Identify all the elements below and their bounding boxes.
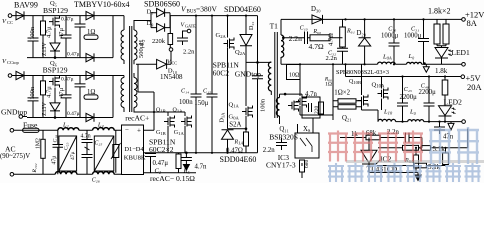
svg-text:4.7n: 4.7n bbox=[305, 91, 317, 98]
svg-text:GNDtop: GNDtop bbox=[1, 108, 27, 117]
svg-text:G1A: G1A bbox=[174, 130, 185, 136]
svg-text:GNDtop: GNDtop bbox=[235, 70, 261, 79]
svg-text:60C2×2: 60C2×2 bbox=[149, 145, 174, 154]
svg-text:(90~275)V: (90~275)V bbox=[0, 153, 30, 160]
svg-text:L₁: L₁ bbox=[62, 122, 69, 129]
svg-text:2.2n: 2.2n bbox=[289, 34, 302, 43]
svg-text:SDD04E60: SDD04E60 bbox=[224, 5, 261, 14]
svg-text:L₄: L₄ bbox=[97, 122, 105, 129]
svg-text:Z13V: Z13V bbox=[42, 42, 48, 56]
svg-text:L₀: L₀ bbox=[409, 109, 416, 116]
svg-text:Q₂₁: Q₂₁ bbox=[342, 115, 352, 122]
svg-text:L₀: L₀ bbox=[408, 53, 415, 60]
svg-text:D₂₀: D₂₀ bbox=[357, 30, 367, 37]
svg-text:1000μ: 1000μ bbox=[404, 33, 422, 40]
svg-text:R1A: R1A bbox=[234, 140, 244, 146]
svg-text:1Ω: 1Ω bbox=[87, 89, 95, 96]
svg-text:Q2A: Q2A bbox=[235, 49, 246, 56]
svg-text:BAV99: BAV99 bbox=[14, 1, 38, 10]
svg-text:C₂₅: C₂₅ bbox=[95, 141, 103, 147]
svg-text:2.2n: 2.2n bbox=[326, 55, 338, 62]
svg-text:R₆₁: R₆₁ bbox=[346, 29, 355, 35]
svg-text:D1−D4: D1−D4 bbox=[124, 146, 144, 153]
svg-text:CC: CC bbox=[172, 61, 178, 66]
svg-text:CNY17-3: CNY17-3 bbox=[266, 161, 296, 170]
svg-text:C₁₅: C₁₅ bbox=[203, 89, 211, 95]
svg-text:100n: 100n bbox=[29, 26, 36, 40]
svg-text:KBU8K: KBU8K bbox=[124, 155, 146, 162]
svg-text:47μ: 47μ bbox=[70, 152, 76, 161]
svg-text:D1A: D1A bbox=[220, 112, 226, 123]
svg-text:D₃₀: D₃₀ bbox=[311, 6, 321, 13]
svg-text:C₂₃: C₂₃ bbox=[64, 142, 70, 150]
svg-text:60C2: 60C2 bbox=[213, 69, 230, 78]
svg-text:47μ: 47μ bbox=[52, 156, 58, 165]
svg-text:recAC− 0.15Ω: recAC− 0.15Ω bbox=[150, 174, 195, 183]
svg-text:0.47Ω: 0.47Ω bbox=[226, 147, 243, 154]
svg-text:4.7μ: 4.7μ bbox=[46, 26, 53, 38]
svg-text:2200μ: 2200μ bbox=[419, 89, 437, 96]
svg-text:Q10B: Q10B bbox=[349, 79, 361, 85]
svg-text:BSP129: BSP129 bbox=[43, 6, 68, 15]
svg-text:8A: 8A bbox=[467, 18, 478, 28]
svg-text:1Ω: 1Ω bbox=[325, 82, 332, 88]
svg-text:Q1B: Q1B bbox=[156, 108, 166, 114]
svg-text:−: − bbox=[125, 126, 129, 134]
svg-text:47μ: 47μ bbox=[58, 28, 65, 39]
svg-text:150μ: 150μ bbox=[194, 100, 208, 107]
svg-text:C₂: C₂ bbox=[155, 168, 162, 175]
svg-text:R₅: R₅ bbox=[183, 168, 190, 175]
svg-text:4.7Ω: 4.7Ω bbox=[309, 42, 324, 51]
svg-text:0.47μ: 0.47μ bbox=[61, 17, 74, 23]
svg-text:47μ: 47μ bbox=[58, 87, 65, 98]
svg-text:XS: XS bbox=[303, 126, 311, 133]
svg-text:C₁₈: C₁₈ bbox=[53, 135, 59, 143]
svg-text:LED1: LED1 bbox=[451, 48, 470, 57]
svg-text:0.47μ: 0.47μ bbox=[67, 111, 80, 117]
svg-text:2.2n: 2.2n bbox=[263, 147, 275, 154]
svg-text:R₆₀: R₆₀ bbox=[312, 29, 321, 35]
svg-text:LED2: LED2 bbox=[444, 98, 463, 107]
svg-text:220k: 220k bbox=[152, 38, 166, 45]
svg-text:1000μ: 1000μ bbox=[381, 33, 399, 40]
svg-text:680: 680 bbox=[304, 160, 310, 169]
svg-text:0.47μ: 0.47μ bbox=[153, 160, 169, 167]
svg-text:2.2n: 2.2n bbox=[183, 49, 195, 56]
svg-text:T1: T1 bbox=[270, 22, 279, 31]
svg-text:G0A: G0A bbox=[229, 114, 240, 121]
svg-text:Q1A: Q1A bbox=[173, 108, 184, 114]
svg-text:recAC+: recAC+ bbox=[125, 114, 149, 123]
svg-text:20A: 20A bbox=[467, 82, 483, 92]
svg-text:Fuse: Fuse bbox=[23, 121, 38, 130]
svg-text:+: + bbox=[137, 127, 141, 135]
svg-text:4.7μ: 4.7μ bbox=[46, 86, 53, 98]
svg-text:Z13V: Z13V bbox=[42, 102, 48, 116]
svg-text:S2A: S2A bbox=[229, 122, 241, 129]
svg-text:BUS: BUS bbox=[187, 10, 197, 15]
svg-text:2200μ: 2200μ bbox=[400, 94, 418, 101]
svg-text:D₈: D₈ bbox=[147, 20, 154, 27]
svg-text:100n: 100n bbox=[179, 99, 193, 106]
svg-text:SPB80N03S2L-03×3: SPB80N03S2L-03×3 bbox=[336, 69, 389, 76]
svg-text:R₁₀₂: R₁₀₂ bbox=[32, 163, 38, 173]
svg-text:C₄₅: C₄₅ bbox=[404, 87, 412, 93]
svg-text:220: 220 bbox=[314, 106, 320, 115]
svg-text:G1B: G1B bbox=[156, 130, 166, 136]
svg-text:CC: CC bbox=[7, 20, 13, 25]
svg-text:C₁₄: C₁₄ bbox=[181, 89, 189, 95]
svg-text:CCtop: CCtop bbox=[7, 60, 20, 65]
svg-text:0.47μ: 0.47μ bbox=[67, 51, 80, 57]
svg-text:4.7Ω: 4.7Ω bbox=[328, 33, 335, 46]
svg-text:GATE: GATE bbox=[185, 24, 196, 29]
svg-text:Q10A: Q10A bbox=[372, 82, 386, 90]
svg-text:BSP129: BSP129 bbox=[43, 66, 68, 75]
svg-text:C₁₀: C₁₀ bbox=[300, 26, 308, 32]
svg-text:D₇: D₇ bbox=[147, 9, 154, 16]
svg-text:1N5408: 1N5408 bbox=[160, 73, 183, 81]
svg-text:100n: 100n bbox=[260, 98, 267, 112]
svg-text:1.8k×2: 1.8k×2 bbox=[428, 7, 451, 16]
svg-text:TMBYV10-60x4: TMBYV10-60x4 bbox=[74, 0, 130, 9]
svg-text:L10: L10 bbox=[383, 109, 393, 116]
svg-text:1.8k: 1.8k bbox=[435, 67, 448, 75]
svg-text:SDD04E60: SDD04E60 bbox=[220, 155, 257, 164]
svg-text:0.47μ: 0.47μ bbox=[61, 77, 74, 83]
svg-text:Q1A: Q1A bbox=[229, 102, 240, 109]
svg-text:C₂₆: C₂₆ bbox=[92, 178, 100, 184]
svg-text:1Ω×2: 1Ω×2 bbox=[334, 90, 350, 97]
svg-text:BSP320S: BSP320S bbox=[269, 133, 298, 142]
svg-text:L₂: L₂ bbox=[139, 39, 146, 47]
svg-text:100n: 100n bbox=[29, 86, 36, 100]
svg-text:4.7n: 4.7n bbox=[195, 164, 207, 171]
svg-text:D₂₂: D₂₂ bbox=[249, 21, 255, 30]
svg-text:L0A: L0A bbox=[382, 54, 392, 61]
svg-text:SDB06S60: SDB06S60 bbox=[144, 0, 180, 9]
svg-text:1Ω: 1Ω bbox=[87, 29, 95, 36]
svg-text:=380V: =380V bbox=[196, 5, 217, 14]
svg-text:1M2: 1M2 bbox=[36, 138, 42, 149]
svg-text:G2A: G2A bbox=[216, 32, 227, 39]
svg-text:4.7n: 4.7n bbox=[81, 134, 91, 140]
svg-text:10Ω: 10Ω bbox=[289, 73, 300, 79]
